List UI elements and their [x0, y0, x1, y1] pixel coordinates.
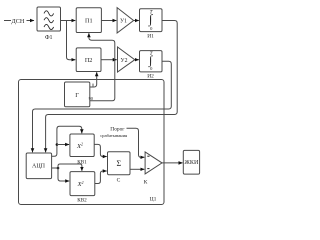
- wire Ф1 to П1: [61, 20, 76, 22]
- svg-text:0: 0: [150, 66, 153, 71]
- multiplier П1: [76, 8, 101, 33]
- wire Порог to К: [127, 128, 145, 157]
- sine waves in Ф1: [44, 11, 54, 30]
- svg-text:Σ: Σ: [116, 159, 121, 168]
- svg-text:ДСН: ДСН: [12, 18, 25, 25]
- svg-text:К: К: [144, 179, 148, 185]
- amplifier У2: [118, 47, 135, 72]
- comparator К: [145, 152, 162, 174]
- squarer КВ1: [70, 134, 94, 157]
- node junction A: [56, 143, 59, 146]
- svg-text:X2: X2: [76, 180, 83, 188]
- minus mark lower: [147, 168, 149, 170]
- wire АЦП out B: [52, 167, 58, 169]
- wire КВ1 to Σ: [94, 144, 107, 156]
- generator Г: [65, 82, 90, 107]
- wire Ф1 branch to П2: [67, 21, 76, 60]
- svg-text:Порог: Порог: [110, 126, 125, 132]
- multiplier П2: [76, 48, 101, 72]
- svg-text:П1: П1: [85, 18, 93, 25]
- wire Г 90-deg to П1: [89, 33, 115, 101]
- svg-text:П2: П2: [85, 57, 93, 64]
- wire К to ЖКИ: [162, 162, 183, 164]
- svg-text:Ц1: Ц1: [150, 197, 157, 203]
- svg-text:И2: И2: [147, 73, 154, 79]
- wire junction B to КВ2 left: [58, 168, 69, 181]
- svg-text:У2: У2: [120, 58, 127, 64]
- svg-text:X2: X2: [76, 142, 83, 150]
- node junction B: [57, 167, 60, 170]
- wire И2 to АЦП: [33, 61, 172, 152]
- svg-text:КВ2: КВ2: [77, 197, 87, 203]
- summer Σ: [108, 152, 131, 175]
- svg-text:КВ1: КВ1: [77, 159, 87, 165]
- squarer КВ2: [70, 172, 95, 196]
- wire У1 to И1: [134, 20, 139, 22]
- svg-text:У1: У1: [120, 19, 127, 25]
- wire input ДСН: [4, 20, 11, 22]
- svg-text:0: 0: [150, 26, 153, 31]
- svg-text:ЖКИ: ЖКИ: [184, 160, 199, 166]
- wire Г 0-deg to П2: [90, 72, 97, 87]
- svg-text:С: С: [117, 177, 121, 183]
- svg-text:срабатывания: срабатывания: [100, 133, 128, 138]
- svg-text:АЦП: АЦП: [32, 164, 46, 170]
- filter Ф1: [37, 7, 61, 31]
- wire КВ2 to Σ: [95, 171, 107, 184]
- wire У2 to И2: [135, 59, 139, 61]
- amplifier У1: [117, 8, 134, 33]
- display ЖКИ: [183, 150, 199, 174]
- wire junction A to КВ1 left: [57, 144, 69, 146]
- digital block Ц1: [19, 80, 165, 205]
- minus mark upper: [147, 155, 149, 157]
- integrator И2: [140, 51, 163, 72]
- integrator И1: [140, 9, 163, 32]
- wire П1 to У1: [101, 20, 116, 22]
- svg-text:Г: Г: [75, 92, 79, 99]
- ADC АЦП: [26, 153, 51, 179]
- wire Σ to К: [130, 168, 144, 170]
- wire junction B to КВ2 top: [58, 164, 82, 171]
- wire И1 to АЦП: [46, 21, 178, 153]
- wire П2 to У2: [101, 59, 117, 61]
- svg-text:И1: И1: [147, 34, 154, 40]
- wire АЦП out A to КВ1 top: [52, 126, 82, 156]
- svg-text:Ф1: Ф1: [45, 35, 53, 41]
